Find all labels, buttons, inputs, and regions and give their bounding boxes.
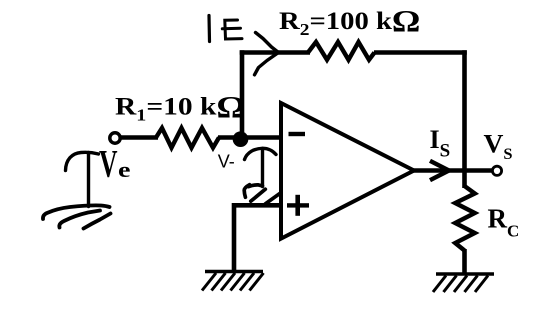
svg-text:V-: V- <box>218 151 235 171</box>
value label R2=100 kOhm <box>279 4 420 38</box>
svg-text:R1=10 kΩ: R1=10 kΩ <box>115 90 246 124</box>
resistor R2 <box>308 42 375 60</box>
resistor RC (vertical) <box>455 186 475 251</box>
wire from R1 to op-amp inverting input (through node V-) <box>218 135 282 140</box>
wire input from Ve terminal to R1 <box>118 135 158 140</box>
terminal Ve (input terminal circle) <box>110 133 120 143</box>
wire RC bottom to ground <box>462 249 467 273</box>
wire feedback vertical left <box>240 50 245 139</box>
current arrow Is on output wire <box>430 161 449 180</box>
minus sign inverting input <box>289 132 306 136</box>
hand-drawn annotation: current label IE (letter I) <box>207 16 211 42</box>
wire right vertical from feedback down to output junction and RC <box>462 50 467 188</box>
wire non-inverting input vertical to ground <box>232 203 237 271</box>
plus sign non-inverting input <box>287 203 309 207</box>
hand-drawn annotation: arrow for IE onto feedback wire <box>255 33 279 75</box>
hand-drawn annotation: arrow/wire from Ve to ground <box>66 152 99 206</box>
svg-text:R2=100 kΩ: R2=100 kΩ <box>279 4 420 38</box>
op-amp U1 <box>281 103 414 239</box>
svg-text:e: e <box>118 157 131 182</box>
svg-text:IS: IS <box>430 125 451 162</box>
svg-text:V: V <box>99 142 118 186</box>
wire non-inverting input horizontal <box>232 203 282 208</box>
svg-text:RC: RC <box>488 204 520 241</box>
hand-drawn annotation: current label IE (letter E) <box>222 20 242 39</box>
wire op-amp output to Vs terminal <box>412 168 493 173</box>
wire feedback top horizontal to R2 <box>240 50 310 55</box>
hand-drawn annotation: arrow from node V- to ground <box>245 148 277 186</box>
value label R1=10 kOhm <box>115 90 246 124</box>
hand-drawn ground under Ve <box>43 205 111 228</box>
hand-drawn ground at V- arrow <box>244 185 279 204</box>
node label Vs <box>484 129 513 163</box>
ground (below non-inverting input) <box>202 272 264 291</box>
node V- junction dot <box>233 131 249 147</box>
wire from R2 to right column <box>374 50 467 55</box>
terminal Vs (output terminal circle) <box>492 166 501 175</box>
ground (below RC) <box>433 274 494 292</box>
svg-text:VS: VS <box>484 129 513 163</box>
resistor R1 <box>156 128 219 148</box>
